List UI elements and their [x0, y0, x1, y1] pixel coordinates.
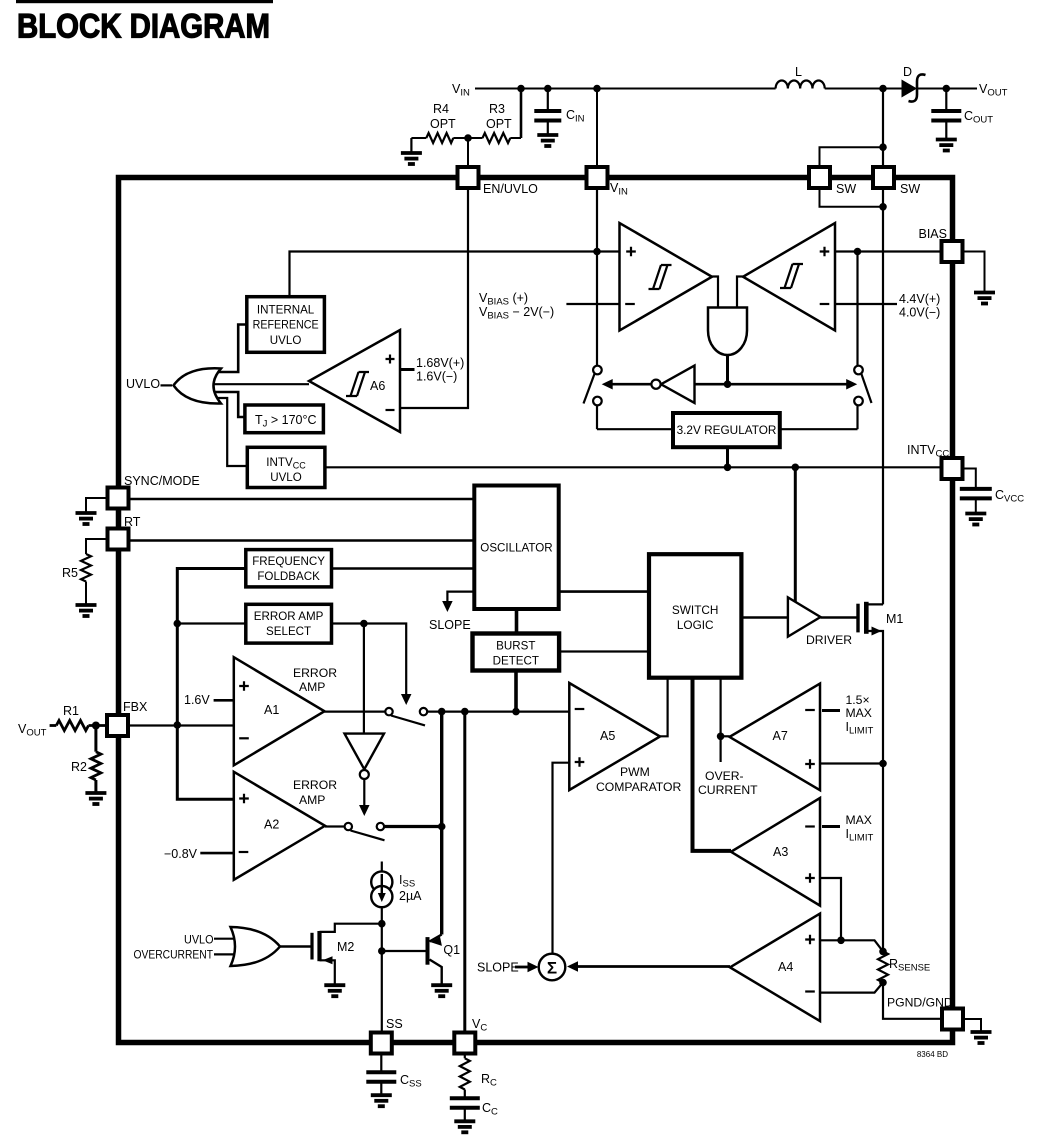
wire burst detect to switch logic — [559, 650, 649, 652]
inverter U8 (down-pointing) — [345, 734, 385, 770]
ground at BIAS — [963, 252, 985, 292]
regulator U6 3.2V REGULATOR — [597, 428, 673, 430]
comparator A3 — [731, 798, 820, 906]
wire divider tap to EN/UVLO pin — [467, 138, 469, 167]
svg-text:UVLO: UVLO — [126, 377, 160, 391]
wire select output to A1 switch arrow — [332, 624, 407, 697]
svg-text:ERROR: ERROR — [293, 666, 337, 680]
svg-text:2µA: 2µA — [399, 889, 422, 903]
wire A6 minus to EN/UVLO pin — [400, 188, 468, 408]
svg-text:FBX: FBX — [123, 700, 148, 714]
box INTERNAL REFERENCE UVLO — [247, 297, 325, 353]
wire RT to oscillator — [129, 539, 475, 542]
box ERROR AMP SELECT — [246, 604, 332, 643]
box FREQUENCY FOLDBACK — [246, 550, 332, 587]
svg-text:R5: R5 — [62, 566, 78, 580]
wire U3 output to AND gate — [737, 277, 743, 308]
wire burst detect to VC rail — [514, 671, 518, 712]
page top rule — [16, 0, 273, 3]
comparator U2 (VIN, right-pointing) — [620, 223, 713, 331]
svg-text:SELECT: SELECT — [266, 625, 311, 638]
wire D to VOUT — [917, 88, 977, 90]
wire A5 plus from summer — [553, 763, 570, 954]
comparator A5 — [569, 683, 660, 790]
pin VIN — [587, 167, 608, 188]
resistor RSENSE — [879, 948, 887, 956]
wire VC pin riser — [463, 712, 466, 1033]
wire A3 plus to A4 plus — [820, 878, 841, 940]
wire INTVCC rail — [325, 466, 942, 468]
wire A4 output to summer — [571, 965, 730, 968]
wire A6 plus ref stub — [400, 368, 415, 371]
wire foldback to oscillator — [332, 567, 475, 570]
capacitor CC — [464, 1090, 466, 1099]
svg-text:DETECT: DETECT — [493, 655, 539, 668]
wire SW loop upper — [820, 147, 884, 167]
svg-text:SLOPE: SLOPE — [429, 618, 471, 632]
wire A4 minus to RSENSE bottom — [820, 983, 883, 993]
svg-text:1.68V(+): 1.68V(+) — [416, 356, 464, 370]
svg-text:SW: SW — [900, 182, 920, 196]
svg-text:3.2V REGULATOR: 3.2V REGULATOR — [677, 423, 777, 437]
wire VIN rail to VIN pin — [596, 89, 598, 168]
svg-text:SYNC/MODE: SYNC/MODE — [124, 474, 200, 488]
svg-text:Q1: Q1 — [443, 943, 460, 957]
inductor L — [776, 80, 825, 88]
svg-text:FOLDBACK: FOLDBACK — [257, 570, 320, 583]
wire oscillator to burst detect — [515, 609, 519, 634]
svg-text:AMP: AMP — [299, 680, 325, 694]
svg-text:−0.8V: −0.8V — [164, 847, 198, 861]
svg-text:R1: R1 — [63, 704, 79, 718]
svg-text:OPT: OPT — [486, 117, 512, 131]
resistor R5 — [86, 539, 108, 554]
IC boundary — [119, 178, 953, 1043]
box SWITCH LOGIC — [649, 554, 741, 678]
wire VIN rail — [475, 88, 776, 90]
svg-text:AMP: AMP — [299, 793, 325, 807]
pin EN/UVLO — [458, 167, 479, 188]
svg-text:MAX: MAX — [846, 706, 872, 720]
wire internal ref to OR input 1 — [210, 325, 247, 373]
svg-text:A6: A6 — [370, 379, 385, 393]
svg-text:R4: R4 — [433, 102, 449, 116]
wire switch logic to driver — [741, 616, 788, 619]
wire switch logic to A3 (overcurrent path) — [693, 678, 732, 851]
wire ISS to SS pin — [381, 907, 383, 1033]
node junction dots on VIN rail — [517, 85, 525, 93]
diode D — [902, 80, 918, 98]
svg-text:M1: M1 — [886, 612, 903, 626]
svg-text:4.0V(−): 4.0V(−) — [899, 306, 940, 320]
svg-text:UVLO: UVLO — [184, 933, 214, 947]
transistor M1 — [821, 616, 859, 619]
capacitor CIN — [547, 89, 549, 112]
svg-text:8364 BD: 8364 BD — [917, 1050, 948, 1059]
wire A3 minus ref stub — [822, 825, 840, 828]
node UVLO label — [161, 384, 173, 386]
svg-text:Σ: Σ — [547, 959, 557, 978]
wire A7 plus to sense rail — [820, 762, 883, 764]
svg-text:DRIVER: DRIVER — [806, 633, 852, 647]
wire SYNC/MODE to oscillator — [129, 498, 475, 501]
wire oscillator SLOPE output — [447, 592, 474, 602]
summer SIGMA — [539, 954, 566, 981]
svg-text:EN/UVLO: EN/UVLO — [483, 182, 538, 196]
comparator A7 — [730, 684, 821, 791]
svg-text:A3: A3 — [773, 845, 788, 859]
svg-text:OSCILLATOR: OSCILLATOR — [480, 542, 552, 555]
current source ISS 2uA — [381, 862, 383, 872]
wire switch logic to A7 — [719, 678, 721, 762]
svg-text:OVER-: OVER- — [705, 769, 744, 783]
svg-text:D: D — [903, 65, 912, 79]
wire VBIAS to comparator minus — [566, 303, 619, 305]
svg-text:BLOCK DIAGRAM: BLOCK DIAGRAM — [17, 8, 270, 46]
wire inverter to A2 switch arrow — [363, 780, 365, 808]
box TJ > 170C — [245, 405, 324, 433]
node R4/R3 junction — [453, 137, 482, 139]
wire A1 output to switch — [325, 710, 385, 712]
svg-text:SLOPE: SLOPE — [477, 961, 519, 975]
svg-text:CURRENT: CURRENT — [698, 783, 758, 797]
wire SW loop lower — [820, 188, 884, 207]
wire L to D — [825, 88, 902, 90]
svg-text:L: L — [795, 65, 802, 79]
wire SW node riser (diode junction down through SW pin to M1 drain) — [882, 89, 884, 605]
svg-text:A1: A1 — [264, 703, 279, 717]
svg-text:1.5×: 1.5× — [846, 693, 870, 707]
svg-text:SS: SS — [386, 1017, 403, 1031]
transistor M2 — [310, 933, 313, 960]
wire TJ box to OR input 3 — [210, 392, 245, 417]
resistor R1 — [50, 724, 57, 727]
driver U9 — [794, 467, 797, 602]
svg-text:R3: R3 — [489, 102, 505, 116]
comparator U3 (BIAS, left-pointing) — [743, 223, 835, 331]
svg-text:A2: A2 — [264, 818, 279, 832]
ground at PGND — [963, 1019, 981, 1031]
svg-text:1.6V(−): 1.6V(−) — [416, 370, 457, 384]
wire A2 switch to Q1 rail — [385, 825, 442, 828]
switch SW-BIAS (right supply switch) — [856, 252, 858, 367]
wire A7 minus ref stub — [822, 709, 840, 712]
wire A2 output to switch — [325, 825, 344, 827]
wire select to FBX rail — [177, 622, 246, 624]
inverter U5 — [661, 366, 695, 403]
switch SW-A2 — [351, 831, 385, 841]
svg-text:UVLO: UVLO — [270, 334, 302, 347]
wire VC rail (error amp output line) — [428, 710, 570, 712]
svg-text:M2: M2 — [337, 940, 354, 954]
svg-text:COMPARATOR: COMPARATOR — [596, 780, 682, 794]
svg-text:ERROR: ERROR — [293, 778, 337, 792]
switch SW-A1 — [391, 716, 425, 726]
wire gnd to R4 — [411, 137, 426, 139]
AND gate U4 — [708, 308, 747, 356]
svg-text:REFERENCE: REFERENCE — [253, 319, 319, 332]
ground at SYNC/MODE — [86, 498, 108, 512]
svg-text:A5: A5 — [600, 729, 615, 743]
wire INTVCC UVLO to OR input 4 — [208, 398, 247, 466]
wire VIN pin riser to rail and switch — [596, 188, 598, 366]
wire comparator U3 minus stub — [835, 303, 897, 305]
svg-text:INTERNAL: INTERNAL — [257, 304, 315, 317]
wire A5 output to switch logic — [660, 678, 668, 737]
svg-text:MAX: MAX — [846, 813, 872, 827]
svg-text:OPT: OPT — [430, 117, 456, 131]
box BURST DETECT — [473, 634, 560, 671]
resistor RC — [464, 1054, 466, 1059]
wire VIN internal rail (to internal reference + comparator +) — [290, 252, 620, 298]
svg-text:SW: SW — [836, 182, 856, 196]
wire OR to M2 gate — [280, 945, 312, 948]
wire regulator output to INTVCC rail — [726, 447, 729, 467]
switch SW-VIN (left supply switch) — [596, 405, 598, 429]
wire FBX pin to A1 minus — [128, 724, 234, 726]
node SW junction dot — [879, 85, 887, 93]
wire FBX rail to A2 plus — [177, 725, 234, 800]
svg-text:ERROR AMP: ERROR AMP — [254, 610, 324, 623]
pin SW 1 — [809, 167, 830, 188]
comparator A4 — [730, 914, 820, 1022]
svg-text:A4: A4 — [778, 960, 793, 974]
wire AND output — [726, 355, 729, 384]
wire select to inverter U8 — [363, 624, 365, 734]
svg-text:SWITCH: SWITCH — [672, 603, 719, 617]
svg-text:BIAS: BIAS — [919, 227, 948, 241]
svg-text:PWM: PWM — [620, 765, 650, 779]
capacitor CSS — [380, 1054, 382, 1073]
wire oscillator to switch logic — [559, 590, 649, 593]
resistor R3 — [483, 133, 511, 143]
resistor R4 — [426, 133, 453, 143]
wire foldback to FBX rail — [177, 569, 246, 725]
OR gate U7 (UVLO, left-pointing) — [174, 368, 222, 403]
wire BIAS rail to comparator plus — [835, 250, 942, 252]
wire supply select arrow line — [606, 383, 853, 386]
ground for R4 — [410, 138, 412, 152]
wire RSENSE to PGND pin — [883, 983, 942, 1019]
svg-text:4.4V(+): 4.4V(+) — [899, 292, 940, 306]
node COUT junction dot — [943, 85, 951, 93]
wire A6 output to OR input 2 — [207, 383, 309, 385]
svg-text:R2: R2 — [71, 760, 87, 774]
svg-text:LOGIC: LOGIC — [677, 618, 714, 632]
capacitor CVCC — [963, 469, 976, 489]
box INTVCC UVLO — [247, 447, 325, 487]
wire R1 to FBX pin — [89, 724, 108, 727]
wire Q1 rail vertical — [440, 712, 443, 935]
wire U2 output to AND gate — [712, 277, 718, 308]
resistor R2 — [94, 726, 97, 752]
svg-text:OVERCURRENT: OVERCURRENT — [134, 948, 214, 962]
svg-text:1.6V: 1.6V — [184, 693, 210, 707]
wire A4 plus to RSENSE top — [820, 940, 883, 951]
transistor Q1 — [382, 950, 425, 952]
svg-text:BURST: BURST — [496, 640, 535, 653]
wire R3 to VIN rail riser — [510, 137, 521, 139]
pin SW 2 — [873, 167, 894, 188]
svg-text:A7: A7 — [773, 729, 788, 743]
capacitor COUT — [945, 89, 947, 112]
svg-text:UVLO: UVLO — [270, 471, 302, 484]
box OSCILLATOR — [474, 486, 558, 610]
svg-text:FREQUENCY: FREQUENCY — [252, 555, 325, 568]
